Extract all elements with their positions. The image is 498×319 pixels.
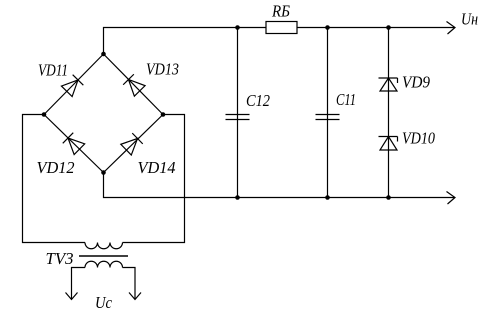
node left junction: [42, 112, 47, 117]
svg-text:VD9: VD9: [402, 73, 430, 92]
svg-text:Uн: Uн: [461, 10, 478, 29]
wire bottom rail: [104, 173, 456, 198]
svg-text:VD14: VD14: [138, 158, 176, 177]
svg-text:C12: C12: [246, 91, 270, 110]
node C12 top junction: [235, 25, 240, 30]
node zener top junction: [386, 25, 391, 30]
svg-text:Uc: Uc: [95, 293, 112, 312]
capacitor C11 plates: [316, 114, 340, 116]
node C12 bottom junction: [235, 195, 240, 200]
wire top rail left segment: [104, 28, 267, 55]
wire right AC lead: [123, 115, 185, 243]
wire secondary left lead: [72, 268, 86, 300]
node C11 bottom junction: [325, 195, 330, 200]
wire top rail right segment: [297, 27, 455, 29]
bridge edge wire T-R: [104, 54, 164, 115]
capacitor C11 wire: [327, 28, 329, 198]
diode VD11: [61, 75, 83, 97]
transformer core: [79, 255, 128, 257]
node top junction: [101, 52, 106, 57]
svg-text:C11: C11: [336, 90, 356, 109]
arrow secondary right: [129, 293, 141, 300]
svg-text:RБ: RБ: [271, 2, 290, 21]
svg-text:VD13: VD13: [146, 60, 179, 79]
arrow secondary left: [66, 293, 78, 300]
node bottom junction: [101, 170, 106, 175]
bridge edge wire L-T: [44, 54, 104, 115]
svg-text:VD11: VD11: [38, 61, 68, 80]
wire left AC lead: [23, 115, 86, 243]
zener diode VD10: [379, 137, 398, 151]
diode VD14: [121, 133, 143, 155]
arrow bottom output: [447, 192, 456, 205]
node right junction: [161, 112, 166, 117]
arrow top output: [447, 22, 456, 35]
diode VD13: [123, 74, 145, 96]
node C11 top junction: [325, 25, 330, 30]
zener branch wire: [388, 28, 390, 198]
zener diode VD9: [379, 78, 398, 91]
svg-text:VD12: VD12: [37, 158, 75, 177]
wire secondary right lead: [123, 268, 136, 300]
transformer TV3 primary winding: [85, 243, 123, 249]
svg-text:VD10: VD10: [402, 129, 435, 148]
node zener bottom junction: [386, 195, 391, 200]
resistor RB: [266, 22, 297, 34]
diode VD12: [63, 133, 85, 155]
svg-text:TV3: TV3: [46, 249, 74, 268]
bridge edge wire B-R: [104, 115, 164, 173]
bridge edge wire L-B: [44, 115, 104, 173]
capacitor C12 wire: [237, 28, 239, 198]
transformer secondary winding: [85, 261, 123, 267]
capacitor C12 plates: [226, 114, 250, 116]
